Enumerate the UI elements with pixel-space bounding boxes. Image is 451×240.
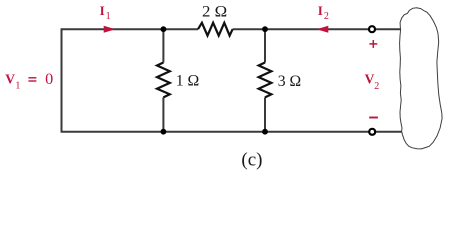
wire: 1-ohm branch upper lead	[162, 29, 164, 62]
wire: 3-ohm branch upper lead	[264, 29, 266, 62]
svg-text:V: V	[5, 71, 15, 86]
terminal: bottom open circle	[369, 129, 375, 135]
svg-text:(c): (c)	[241, 149, 262, 170]
svg-text:3 Ω: 3 Ω	[278, 71, 301, 90]
wire: top segment between 2-ohm resistor and top terminal	[233, 28, 369, 30]
svg-text:1: 1	[15, 80, 20, 91]
terminal: top open circle	[369, 26, 375, 32]
svg-text:2 Ω: 2 Ω	[202, 2, 227, 21]
node dot: bottom junction of 1-ohm branch	[161, 129, 167, 135]
resistor R 2-ohm (horizontal zigzag)	[198, 23, 233, 36]
svg-text:V: V	[365, 71, 375, 86]
svg-text:2: 2	[324, 11, 329, 22]
svg-text:0: 0	[45, 70, 53, 88]
polarity plus sign	[369, 40, 377, 48]
current arrow I2 (points left)	[317, 26, 329, 33]
polarity minus sign	[369, 117, 378, 119]
svg-text:1 Ω: 1 Ω	[176, 71, 200, 90]
wire: top-left horizontal segment from corner to 2-ohm resistor	[62, 28, 199, 30]
svg-text:2: 2	[374, 81, 379, 92]
wire: left vertical (short circuit, V1=0)	[61, 28, 63, 131]
svg-text:I: I	[100, 3, 105, 18]
wire: 1-ohm branch lower lead	[162, 97, 164, 131]
wire: bottom terminal to blob	[376, 131, 402, 133]
resistor R 3-ohm (vertical zigzag)	[259, 63, 272, 98]
wire: top terminal to blob	[376, 28, 401, 30]
blob: hand-drawn rest-of-circuit outline	[400, 8, 443, 149]
resistor R 1-ohm (vertical zigzag)	[157, 63, 170, 98]
node dot: top junction of 3-ohm branch	[262, 26, 268, 32]
svg-text:I: I	[318, 3, 323, 18]
current arrow I1 (points right)	[104, 26, 116, 33]
wire: 3-ohm branch lower lead	[264, 97, 266, 131]
wire: bottom horizontal from left corner to bottom terminal	[61, 131, 369, 133]
node dot: bottom junction of 3-ohm branch	[262, 129, 268, 135]
node dot: top junction of 1-ohm branch	[161, 26, 167, 32]
svg-text:1: 1	[106, 11, 111, 22]
